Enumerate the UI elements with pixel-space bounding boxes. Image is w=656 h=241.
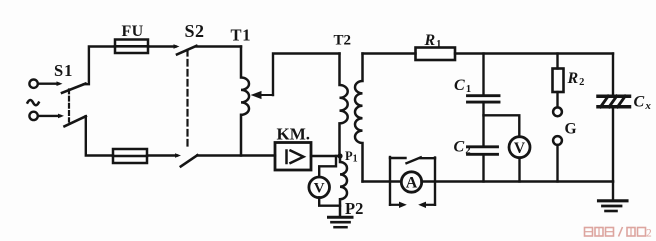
svg-text:KM.: KM. — [277, 125, 311, 144]
ground right — [599, 199, 628, 202]
fuse FU top — [115, 40, 148, 54]
ammeter shorting box left edge — [389, 157, 391, 205]
T1 wiper arrow — [258, 94, 273, 96]
wire from top terminal to S1 — [38, 82, 58, 84]
svg-text:C1: C1 — [454, 77, 471, 95]
svg-text:T1: T1 — [231, 26, 252, 45]
svg-text:G: G — [565, 120, 577, 137]
capacitor C2 — [468, 145, 498, 148]
svg-text:V: V — [514, 140, 526, 157]
test object Cx branch riser — [612, 54, 614, 95]
S1 bottom blade — [65, 116, 86, 126]
wire bus to right ground — [612, 182, 614, 201]
top HV bus left of R1 — [363, 52, 416, 54]
capacitor C1 branch riser — [482, 54, 484, 96]
wire fuse top to S2 — [148, 45, 176, 47]
fuse FU bottom — [113, 149, 147, 163]
ammeter shorting switch top — [390, 157, 406, 159]
transformer T2 primary winding — [340, 54, 348, 157]
test object Cx (hatched capacitor) — [598, 94, 630, 98]
wire S2 top to T1 — [197, 45, 241, 47]
S2 top blade — [177, 46, 196, 55]
AC source terminal top — [29, 80, 37, 88]
resistor R2 — [553, 69, 564, 93]
AC tilde symbol — [28, 100, 39, 105]
svg-text:P2: P2 — [345, 199, 363, 218]
svg-text:R2: R2 — [567, 70, 585, 88]
resistor R1 — [416, 48, 456, 61]
T2 measuring winding P1-P2 — [340, 156, 347, 216]
wire fuse bottom to S2 — [147, 154, 177, 156]
S1 mechanical link (dashed) — [68, 90, 70, 122]
voltmeter V1 — [309, 177, 330, 198]
svg-text:V: V — [314, 181, 325, 197]
AC source terminal bottom — [29, 112, 37, 120]
wire S1 bottom riser to bottom bus — [86, 116, 113, 155]
wire Cx to bus — [612, 109, 614, 182]
svg-text:Cx: Cx — [634, 94, 652, 113]
wire from bottom terminal to S1 — [38, 115, 60, 117]
svg-text:A: A — [406, 175, 418, 192]
ammeter shorting box right edge — [434, 158, 436, 205]
wire V1 branch from P1 — [319, 156, 336, 177]
transformer T2 secondary winding — [355, 54, 363, 182]
ammeter link arrow right — [425, 204, 435, 206]
node P1 junction dot — [337, 153, 342, 158]
wire T2 secondary bottom to ammeter box — [363, 180, 402, 182]
svg-text:FU: FU — [122, 23, 144, 40]
svg-text:T2: T2 — [334, 33, 352, 49]
S2 mechanical link (dashed) — [186, 50, 188, 150]
ammeter link arrow left — [390, 204, 400, 206]
S1 top blade — [62, 84, 86, 93]
watermark bottom right — [585, 227, 653, 239]
top HV bus right of R1 — [455, 52, 613, 54]
svg-text:R1: R1 — [424, 32, 442, 50]
ammeter A — [401, 172, 421, 192]
svg-text:2: 2 — [646, 227, 652, 239]
KM I> symbol — [285, 151, 288, 164]
wire R2 to gap — [556, 92, 558, 107]
voltmeter V2 — [509, 137, 530, 158]
wire S1 top riser to top bus — [84, 47, 115, 85]
wire C1 to C2 — [482, 102, 484, 147]
svg-text:S2: S2 — [185, 21, 205, 41]
ground at P2 — [329, 216, 353, 219]
wire C2 to bus — [482, 154, 484, 181]
wire KM to node P1 — [311, 155, 340, 157]
bottom HV ground bus — [422, 180, 614, 182]
wire gap to bus — [556, 145, 558, 182]
transformer T1 winding — [241, 47, 249, 156]
wire T1 wiper to T2 primary — [273, 54, 340, 96]
capacitor C1 — [468, 94, 500, 97]
wire V1 to P2 ground — [319, 197, 340, 205]
sphere gap G lower electrode — [553, 136, 562, 145]
wire divider tap to V2 — [484, 115, 520, 137]
svg-text:P1: P1 — [345, 149, 358, 165]
wire S2 bottom to KM — [197, 154, 275, 156]
resistor R2 branch riser — [556, 54, 558, 69]
S2 bottom blade — [181, 155, 198, 166]
svg-text:S1: S1 — [54, 61, 73, 80]
svg-text:C2: C2 — [454, 139, 471, 157]
relay KM box — [275, 143, 311, 171]
wire V2 to bus — [518, 158, 520, 182]
sphere gap G upper electrode — [553, 107, 562, 116]
